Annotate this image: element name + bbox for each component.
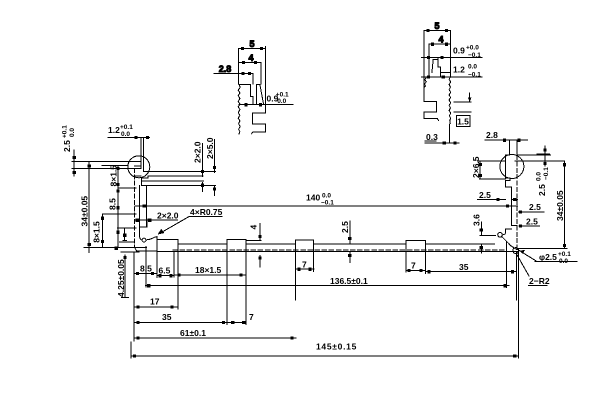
dim 6.5 bottom — [157, 266, 174, 278]
svg-text:1.5: 1.5 — [457, 117, 469, 127]
svg-text:7: 7 — [411, 261, 416, 271]
detail2 small gap dim with down arrow — [454, 93, 472, 112]
svg-text:0.9: 0.9 — [453, 46, 465, 56]
svg-text:0.0: 0.0 — [536, 172, 543, 181]
svg-text:2×5.0: 2×5.0 — [205, 137, 215, 159]
svg-text:4: 4 — [249, 225, 259, 230]
svg-text:4×R0.75: 4×R0.75 — [190, 207, 223, 217]
svg-text:2.5: 2.5 — [526, 216, 538, 226]
extension line part bottom left — [84, 246, 147, 248]
svg-text:+0.1: +0.1 — [558, 251, 571, 258]
dim 1.2 +0.1/0.0 top left — [108, 136, 149, 139]
dim 8x1.5 lower left — [92, 214, 137, 246]
svg-text:8×1.5: 8×1.5 — [109, 165, 119, 187]
4xR0.75 leader — [158, 207, 223, 235]
svg-text:145±0.15: 145±0.15 — [316, 342, 357, 352]
dim 7 bump2 bottom — [227, 312, 254, 324]
left foot bottom — [135, 247, 157, 251]
svg-text:8.5: 8.5 — [108, 198, 118, 210]
dim 145 bottom — [131, 342, 518, 358]
svg-text:18×1.5: 18×1.5 — [195, 265, 222, 275]
dim 34+-0.05 right — [555, 161, 566, 249]
dim 4 mid rotated — [246, 224, 262, 267]
svg-text:8×1.5: 8×1.5 — [92, 221, 102, 243]
extension verticals bottom — [131, 242, 518, 359]
dim 2.5 #3 right — [519, 216, 540, 227]
svg-text:0.0: 0.0 — [559, 258, 568, 265]
svg-text:34±0.05: 34±0.05 — [80, 196, 90, 227]
detail1 break zigzag — [238, 85, 240, 134]
svg-text:136.5±0.1: 136.5±0.1 — [330, 276, 368, 286]
phi 2.5 tolerance text — [539, 251, 571, 265]
svg-text:7: 7 — [249, 312, 254, 322]
svg-text:1.2: 1.2 — [108, 125, 120, 135]
svg-text:+0.1: +0.1 — [120, 124, 133, 131]
detail2 0.9 tolerance text — [453, 45, 481, 60]
svg-text:−0.1: −0.1 — [543, 167, 550, 180]
bar outline with bumps — [157, 240, 495, 245]
extension line part bottom right — [518, 248, 567, 250]
dim 61 bottom — [134, 328, 296, 340]
svg-text:0.0: 0.0 — [468, 64, 477, 71]
svg-text:2×2.0: 2×2.0 — [157, 211, 179, 221]
svg-text:7: 7 — [302, 260, 307, 270]
dim 140 0.0/-0.1 — [135, 205, 517, 208]
right arm foot slope — [502, 237, 517, 250]
svg-text:35: 35 — [162, 312, 172, 322]
strip ticks dim 2x2.0 rotated — [193, 141, 205, 176]
detail balloon circle left — [128, 156, 150, 178]
extension line 2x6.5 — [478, 160, 505, 162]
phi 2.5 leader — [518, 250, 577, 262]
detail2 boxed 1.5 label — [457, 116, 471, 127]
svg-text:−0.1: −0.1 — [468, 52, 481, 59]
svg-text:3.6: 3.6 — [472, 214, 482, 226]
svg-text:2−R2: 2−R2 — [529, 276, 550, 286]
dim 17 bottom — [134, 297, 178, 309]
svg-text:+0.1: +0.1 — [62, 125, 69, 138]
svg-text:−0.1: −0.1 — [468, 72, 481, 79]
svg-text:0.0: 0.0 — [121, 131, 130, 138]
svg-text:−0.1: −0.1 — [321, 200, 334, 207]
extension line arm top lower — [72, 167, 141, 169]
svg-text:0.0: 0.0 — [277, 98, 286, 105]
2x2.0 step label — [135, 211, 179, 228]
svg-text:2×2.0: 2×2.0 — [193, 141, 203, 163]
strip lower ticks — [201, 182, 216, 195]
svg-text:+0.0: +0.0 — [466, 45, 479, 52]
dim 136.5 bottom — [145, 276, 509, 287]
dim 8x1.5 upper left — [102, 165, 136, 247]
detail2 tooth profile mirrored — [432, 30, 450, 76]
dim 2.5 0.0/-0.1 rotated right — [536, 146, 551, 196]
extension line arm top upper — [72, 161, 141, 163]
detail1 dim 5 line — [239, 47, 266, 105]
right arm body — [480, 155, 517, 251]
left arm top tab — [141, 138, 144, 168]
detail balloon circle right — [500, 155, 524, 179]
dim 18x1.5 bottom — [174, 265, 246, 277]
dim 2.5 +0.1/0.0 rotated text left — [62, 125, 77, 152]
dim 2.5 mid rotated — [340, 221, 351, 262]
detail2 1.2 tolerance text — [453, 64, 481, 79]
detail2 solid centre line below zigzag — [449, 124, 451, 142]
dim 8.5 left — [108, 189, 137, 227]
svg-text:17: 17 — [150, 297, 160, 307]
dim 2.5 #1 right — [478, 190, 518, 201]
svg-text:140: 140 — [306, 193, 320, 203]
detail2 lower step — [424, 78, 439, 121]
right arm top tab — [509, 140, 517, 155]
right foot / hole phi2.5 — [513, 248, 519, 254]
detail2 dim 1.2 line — [421, 76, 482, 79]
svg-text:0.0: 0.0 — [69, 128, 76, 137]
extension line right arm top long — [515, 160, 564, 162]
svg-text:4: 4 — [438, 35, 443, 45]
detail1 lower step — [252, 105, 266, 134]
detail1 tooth profile — [239, 85, 264, 105]
dim 35 right bottom — [426, 262, 517, 273]
detail1 0.9 tolerance text — [267, 92, 290, 106]
svg-text:34±0.05: 34±0.05 — [555, 190, 565, 221]
dim 7 bottom bump4 — [406, 261, 426, 273]
dim 8.5 bottom — [134, 264, 157, 276]
svg-text:1.2: 1.2 — [453, 65, 465, 75]
dim 2.5 left tick line — [73, 150, 76, 176]
dim 3.6 rotated right — [472, 214, 483, 253]
svg-text:2.8: 2.8 — [486, 130, 498, 140]
detail1 floor line with 0.9 dim dots — [239, 103, 293, 106]
dim 2.8 right — [485, 130, 528, 142]
dim 2.5 #2 right — [518, 202, 544, 214]
svg-text:2.8: 2.8 — [219, 64, 232, 74]
detail2 dim 5 line — [424, 29, 450, 98]
svg-text:5: 5 — [249, 39, 254, 49]
detail2 dim 0.9 line — [421, 56, 482, 59]
svg-text:0.0: 0.0 — [322, 193, 331, 200]
detail2 dim 4 line — [429, 43, 451, 77]
dim 34+-0.05 left — [80, 162, 91, 252]
svg-text:5: 5 — [434, 21, 439, 31]
svg-text:2.5: 2.5 — [537, 184, 547, 196]
bar bottom edge — [157, 250, 518, 252]
svg-text:2×6.5: 2×6.5 — [471, 156, 481, 178]
left arm foot hook curve R0.75 — [140, 236, 157, 252]
svg-text:6.5: 6.5 — [159, 266, 171, 276]
dim 4.25+-0.05 left — [116, 252, 139, 298]
detail1 dim 2.8 line — [214, 72, 253, 84]
left arm body — [135, 166, 216, 247]
right arm foot hook loop — [498, 229, 506, 237]
svg-text:35: 35 — [459, 262, 469, 272]
tick x124.7 upper — [119, 228, 134, 242]
dim 7 bottom bump3 — [295, 260, 314, 271]
dim 35 left bottom — [134, 312, 227, 324]
detail2 break zigzag — [449, 77, 451, 124]
dim 2x6.5 rotated — [471, 156, 482, 178]
svg-text:4.25±0.05: 4.25±0.05 — [116, 259, 126, 297]
svg-text:61±0.1: 61±0.1 — [180, 328, 206, 338]
svg-text:4: 4 — [248, 53, 253, 63]
2-R2 leader — [517, 254, 550, 286]
strip ticks dim 2x5.0 rotated — [205, 137, 216, 172]
svg-text:2.5: 2.5 — [62, 140, 72, 152]
svg-text:2.5: 2.5 — [529, 202, 541, 212]
right arm top edge extension — [517, 154, 551, 156]
svg-text:2.5: 2.5 — [479, 190, 491, 200]
svg-text:2.5: 2.5 — [340, 221, 350, 233]
bar hidden dashed root line — [173, 249, 505, 251]
detail1 dim 4 line — [239, 61, 262, 84]
svg-text:8.5: 8.5 — [140, 264, 152, 274]
detail2 dim 0.3 — [425, 132, 459, 144]
svg-text:φ2.5: φ2.5 — [539, 252, 557, 262]
